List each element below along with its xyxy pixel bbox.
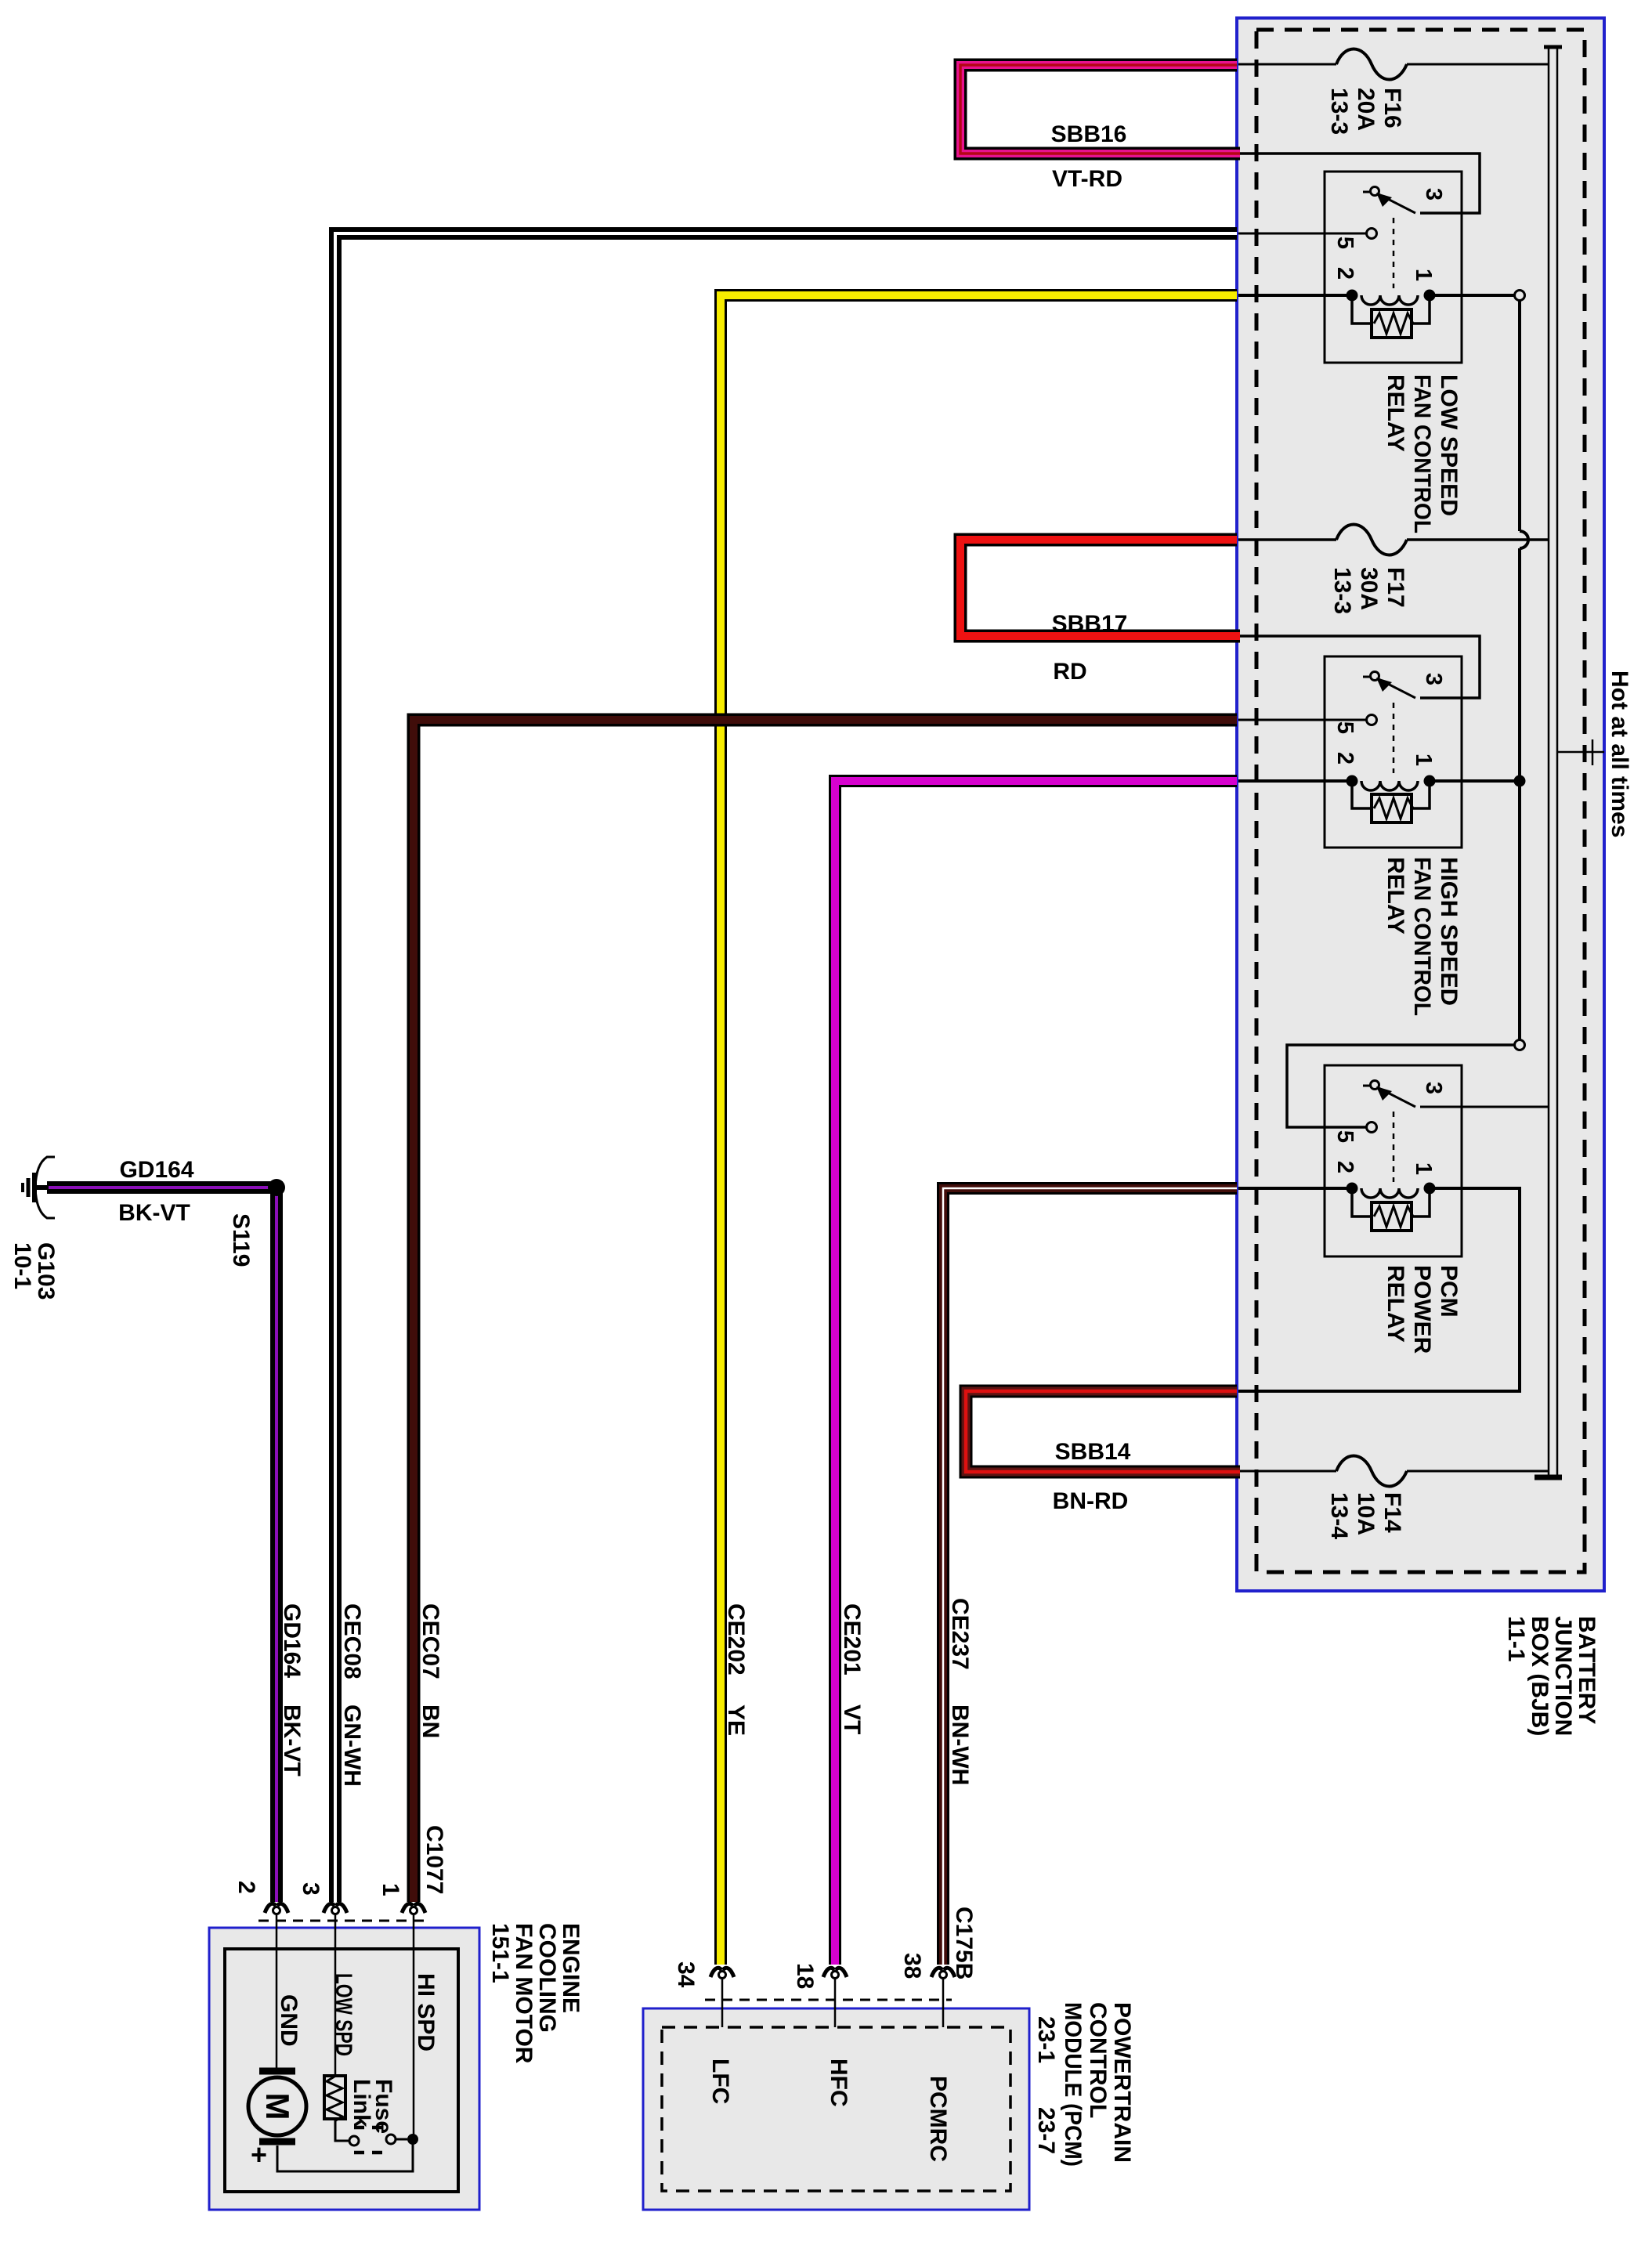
svg-text:BK-VT: BK-VT	[279, 1704, 305, 1777]
connector pin 18	[823, 1968, 847, 1978]
connector C175B dashed line	[705, 1999, 952, 2001]
svg-text:HIGH SPEED: HIGH SPEED	[1436, 857, 1462, 1006]
svg-text:PCM: PCM	[1436, 1265, 1462, 1318]
svg-text:11-1: 11-1	[1503, 1616, 1529, 1661]
connector C1077 dashed line	[258, 1920, 427, 1922]
svg-text:BN: BN	[418, 1704, 443, 1738]
label ENGINE COOLING FAN MOTOR 151-1	[487, 1923, 584, 2064]
relay K2 suppression resistor	[1352, 786, 1372, 808]
svg-text:S119: S119	[228, 1213, 254, 1267]
svg-text:BN-RD: BN-RD	[1053, 1488, 1129, 1514]
wire relay K3 pin 3 to bus	[1420, 1106, 1549, 1108]
wire CEC08 GN-WH	[335, 233, 1237, 1902]
relay K1 switch arm	[1379, 194, 1415, 213]
svg-text:2: 2	[1332, 267, 1357, 280]
svg-text:38: 38	[899, 1953, 925, 1979]
svg-text:F16: F16	[1379, 88, 1405, 128]
svg-text:13-3: 13-3	[1329, 567, 1355, 614]
svg-text:13-4: 13-4	[1326, 1492, 1352, 1539]
svg-text:POWERTRAIN: POWERTRAIN	[1109, 2002, 1135, 2163]
wire junction to relay K3 pin 5	[1287, 1045, 1515, 1127]
svg-text:CEC07: CEC07	[418, 1603, 443, 1679]
wire relay chain vertical with hop over F17 feed	[1520, 295, 1528, 1045]
svg-text:CE237: CE237	[947, 1598, 973, 1670]
svg-text:1: 1	[1411, 269, 1436, 281]
svg-text:SBB17: SBB17	[1052, 611, 1128, 637]
relay K2 HIGH SPEED FAN CONTROL RELAY	[1238, 636, 1526, 848]
relay K3 pin 5 contact	[1367, 1122, 1377, 1133]
svg-text:BK-VT: BK-VT	[118, 1200, 190, 1226]
svg-text:F14: F14	[1379, 1492, 1405, 1533]
svg-text:3: 3	[1421, 188, 1446, 201]
svg-text:BATTERY: BATTERY	[1574, 1616, 1600, 1724]
relay K3 coil	[1238, 1187, 1352, 1190]
connector pin 1	[402, 1903, 425, 1914]
wire LFC stub	[721, 1978, 724, 2027]
fuse F16 20A	[1238, 49, 1549, 80]
label PCM POWER RELAY	[1383, 1265, 1462, 1354]
svg-text:3: 3	[1421, 673, 1446, 685]
svg-text:34: 34	[673, 1961, 699, 1988]
svg-text:RD: RD	[1053, 659, 1086, 685]
label F16 20A 13-3	[1326, 88, 1405, 135]
relay K1 LOW SPEED FAN CONTROL RELAY	[1238, 154, 1525, 363]
ground G103	[23, 1157, 55, 1218]
label BATTERY JUNCTION BOX (BJB) 11-1	[1503, 1616, 1600, 1736]
svg-text:13-3: 13-3	[1326, 88, 1352, 135]
Hot at all times bracket	[1558, 739, 1604, 765]
relay K1 suppression resistor	[1352, 301, 1372, 324]
wire HI SPD stub	[413, 1914, 415, 2136]
svg-text:23-1: 23-1	[1033, 2016, 1059, 2063]
svg-text:GN-WH: GN-WH	[339, 1704, 365, 1787]
svg-text:2: 2	[1332, 1161, 1357, 1173]
connector pin 3	[324, 1903, 347, 1914]
connector pin 2	[265, 1903, 288, 1914]
svg-text:10-1: 10-1	[9, 1242, 35, 1289]
wire motor to HI SPD node	[277, 2144, 413, 2171]
fuse F17 30A	[1238, 525, 1549, 555]
label F17 30A 13-3	[1329, 567, 1408, 614]
wire PCMRC stub	[942, 1978, 945, 2027]
svg-text:YE: YE	[723, 1704, 749, 1736]
svg-text:1: 1	[378, 1883, 403, 1896]
node S119 splice	[268, 1179, 285, 1196]
BJB inner dashed border	[1256, 30, 1585, 1572]
node relay K2 pin 1 junction	[1514, 775, 1526, 787]
wire BJB edge to relay K2 pin 5	[1238, 719, 1366, 721]
svg-text:ENGINE: ENGINE	[558, 1923, 584, 2013]
svg-text:CEC08: CEC08	[339, 1603, 365, 1679]
svg-text:3: 3	[298, 1882, 324, 1896]
motor M	[248, 2071, 306, 2142]
svg-text:G103: G103	[33, 1242, 59, 1300]
wire SBB14 BN-RD loop	[966, 1391, 1240, 1472]
svg-text:LOW SPD: LOW SPD	[331, 1973, 356, 2056]
wire CE202 YE	[721, 295, 1237, 1965]
svg-text:10A: 10A	[1353, 1492, 1379, 1535]
svg-text:COOLING: COOLING	[534, 1923, 560, 2033]
svg-text:Link: Link	[349, 2079, 374, 2127]
wire feed SBB17 to relay K2 pin 3	[1238, 636, 1480, 698]
svg-text:2: 2	[233, 1881, 259, 1894]
svg-text:23-7: 23-7	[1033, 2107, 1059, 2154]
relay K2 coil	[1238, 779, 1352, 783]
svg-text:2: 2	[1332, 752, 1357, 765]
relay K1 coil	[1238, 294, 1352, 297]
wire HFC stub	[834, 1978, 837, 2027]
bus bar (hot feed)	[1535, 47, 1562, 1477]
node feed junction to relay K3	[1515, 1040, 1525, 1050]
label F14 10A 13-4	[1326, 1492, 1405, 1539]
svg-text:RELAY: RELAY	[1383, 857, 1408, 934]
svg-text:VT-RD: VT-RD	[1052, 166, 1122, 192]
svg-text:SBB14: SBB14	[1055, 1439, 1131, 1465]
powertrain control module box	[643, 2008, 1029, 2210]
svg-text:5: 5	[1332, 721, 1357, 734]
svg-text:GD164: GD164	[119, 1157, 193, 1183]
wire relay K3 pin 1 to SBB14 feed	[1238, 1188, 1520, 1391]
svg-text:GND: GND	[276, 1994, 302, 2047]
fuse F14 10A	[1238, 1456, 1549, 1487]
svg-text:1: 1	[1411, 754, 1436, 766]
relay K2 pin 3 contact	[1363, 676, 1370, 678]
relay K3 switch arm	[1379, 1088, 1415, 1107]
label LOW SPEED FAN CONTROL RELAY	[1383, 374, 1462, 533]
wire CE201 VT	[835, 781, 1237, 1965]
svg-text:POWER: POWER	[1409, 1265, 1435, 1354]
svg-text:CE201: CE201	[839, 1603, 865, 1676]
wire LOW SPD stub	[334, 1914, 337, 2076]
svg-text:FAN CONTROL: FAN CONTROL	[1409, 857, 1435, 1016]
svg-text:20A: 20A	[1353, 88, 1379, 131]
svg-text:HI SPD: HI SPD	[413, 1973, 439, 2052]
wire SBB16 VT-RD loop	[960, 65, 1240, 154]
label POWERTRAIN CONTROL MODULE (PCM) 23-1 23-7	[1033, 2002, 1135, 2167]
relay K3 pin 3 contact	[1363, 1085, 1370, 1087]
wire BJB edge to relay K1 pin 5	[1238, 233, 1366, 235]
svg-text:+: +	[251, 2138, 267, 2171]
svg-text:FAN MOTOR: FAN MOTOR	[511, 1923, 537, 2064]
relay K1 pin 3 contact	[1363, 191, 1370, 193]
label HIGH SPEED FAN CONTROL RELAY	[1383, 857, 1462, 1016]
relay K3 PCM POWER RELAY	[1238, 1040, 1549, 1392]
relay K2 switch arm	[1379, 679, 1415, 698]
svg-text:GD164: GD164	[279, 1603, 305, 1678]
label Fuse Link	[349, 2079, 396, 2134]
svg-text:SBB16: SBB16	[1051, 121, 1127, 147]
svg-text:VT: VT	[839, 1704, 865, 1734]
svg-text:CONTROL: CONTROL	[1085, 2002, 1111, 2118]
node HI SPD junction	[407, 2134, 418, 2145]
svg-text:RELAY: RELAY	[1383, 1265, 1408, 1343]
svg-text:FAN CONTROL: FAN CONTROL	[1409, 374, 1435, 533]
fuse link	[335, 2119, 407, 2153]
connector pin 38	[931, 1968, 955, 1978]
svg-text:BOX (BJB): BOX (BJB)	[1527, 1616, 1553, 1736]
svg-text:5: 5	[1332, 1130, 1357, 1143]
svg-text:JUNCTION: JUNCTION	[1550, 1616, 1576, 1736]
svg-text:3: 3	[1421, 1082, 1446, 1094]
relay K1 pin 5 contact	[1367, 229, 1377, 239]
relay K3 suppression resistor	[1352, 1194, 1372, 1216]
svg-text:PCMRC: PCMRC	[925, 2076, 951, 2162]
svg-text:C1077: C1077	[421, 1825, 447, 1894]
wire SBB17 RD loop	[960, 540, 1240, 636]
svg-text:LOW SPEED: LOW SPEED	[1436, 374, 1462, 516]
wire GD164 BK-VT	[47, 1188, 277, 1902]
svg-text:18: 18	[792, 1963, 818, 1989]
svg-text:MODULE (PCM): MODULE (PCM)	[1060, 2002, 1086, 2167]
battery junction box BJB outline	[1237, 18, 1604, 1591]
svg-text:M: M	[259, 2093, 296, 2120]
svg-text:30A: 30A	[1356, 567, 1382, 610]
svg-text:F17: F17	[1383, 567, 1408, 608]
relay K2 pin 5 contact	[1367, 715, 1377, 725]
svg-text:Hot at all times: Hot at all times	[1607, 671, 1632, 837]
svg-text:5: 5	[1332, 237, 1357, 249]
wire feed SBB16 to relay K1 pin 3	[1238, 154, 1480, 213]
wire GND stub	[276, 1914, 278, 2070]
svg-text:C175B: C175B	[951, 1907, 977, 1979]
svg-text:CE202: CE202	[723, 1603, 749, 1676]
svg-text:BN-WH: BN-WH	[947, 1704, 973, 1785]
svg-text:HFC: HFC	[826, 2059, 851, 2107]
node relay K1 pin 1 junction	[1515, 291, 1525, 301]
wire CE237 BN-WH	[943, 1188, 1237, 1965]
resistor LOW SPD	[324, 2076, 345, 2121]
svg-text:LFC: LFC	[707, 2059, 733, 2104]
svg-text:RELAY: RELAY	[1383, 374, 1408, 452]
label G103 10-1	[9, 1242, 59, 1300]
wire CEC07 BN	[414, 720, 1237, 1902]
svg-text:151-1: 151-1	[487, 1923, 513, 1983]
svg-text:1: 1	[1411, 1162, 1436, 1175]
engine cooling fan motor box	[209, 1928, 479, 2210]
connector pin 34	[710, 1968, 734, 1978]
